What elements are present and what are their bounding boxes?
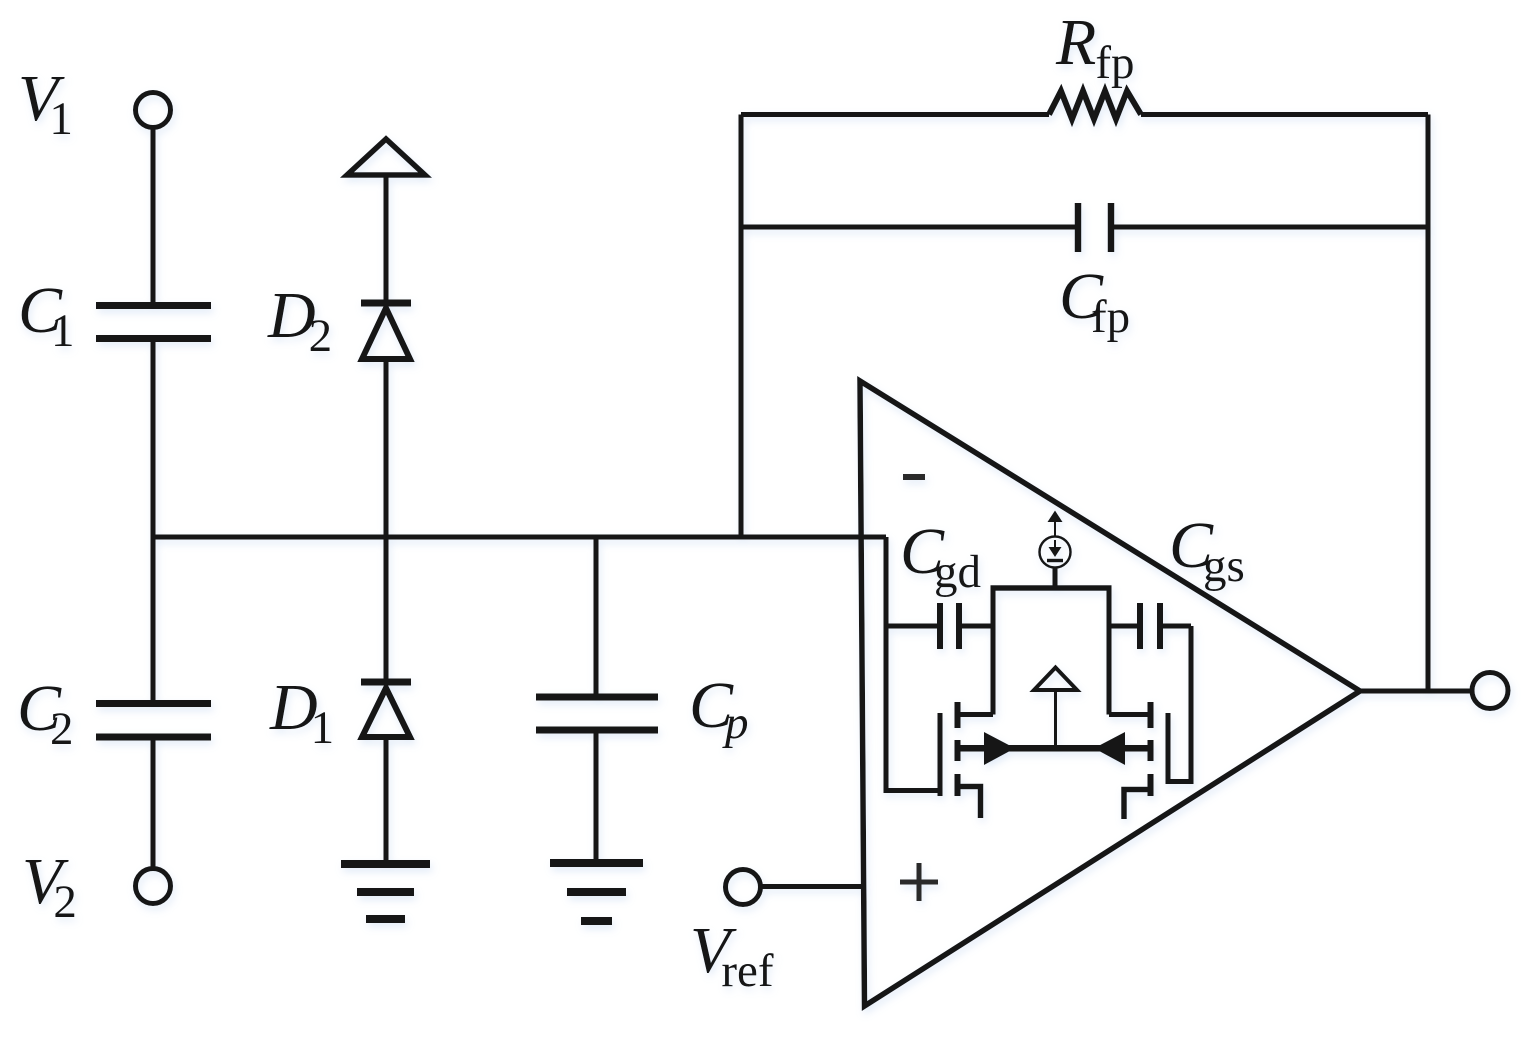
ground <box>550 863 643 921</box>
wire <box>759 884 861 889</box>
plus input sign <box>900 863 938 901</box>
wire <box>151 339 156 538</box>
transistor M2 <box>1109 702 1168 819</box>
wire <box>151 737 156 869</box>
wire <box>151 127 156 303</box>
diode D2 <box>361 303 411 359</box>
svg-text:V1: V1 <box>18 62 73 145</box>
capacitor Cfp <box>1078 203 1111 252</box>
ground <box>341 864 430 919</box>
op-amp U1 <box>860 381 1360 1006</box>
transistor M1 <box>940 702 993 818</box>
current source <box>1040 511 1071 589</box>
wire <box>991 588 996 715</box>
bulk arrow <box>1034 668 1077 749</box>
svg-text:D2: D2 <box>267 279 332 362</box>
svg-text:C2: C2 <box>17 672 74 755</box>
wire <box>384 737 389 861</box>
svg-text:Cp: Cp <box>689 669 749 749</box>
wire node bus <box>153 535 886 540</box>
wire <box>151 537 156 701</box>
svg-text:V2: V2 <box>22 845 77 928</box>
wire <box>1426 115 1431 692</box>
wire tail <box>958 732 1151 765</box>
wire <box>1114 225 1428 230</box>
wire <box>1107 588 1112 715</box>
capacitor C2 <box>96 704 211 738</box>
wire <box>384 359 389 679</box>
svg-text:Cgd: Cgd <box>900 515 981 598</box>
wire <box>1141 112 1428 117</box>
capacitor Cgd <box>886 603 993 649</box>
svg-text:Cgs: Cgs <box>1169 509 1245 592</box>
terminal Vref <box>726 870 761 905</box>
svg-text:Vref: Vref <box>690 914 774 997</box>
wire <box>741 225 1075 230</box>
wire <box>1168 626 1191 782</box>
capacitor Cgs <box>1109 603 1191 649</box>
svg-text:D1: D1 <box>269 671 334 754</box>
wire <box>594 730 599 860</box>
diode D1 <box>361 682 411 737</box>
svg-text:Rfp: Rfp <box>1055 6 1134 89</box>
wire <box>1360 689 1473 694</box>
capacitor C1 <box>96 306 211 339</box>
svg-text:Cfp: Cfp <box>1059 260 1130 343</box>
terminal output <box>1472 673 1508 709</box>
capacitor Cp <box>536 697 658 730</box>
wire top bar <box>991 585 1112 591</box>
terminal V2 <box>136 869 171 904</box>
resistor Rfp <box>1049 91 1141 119</box>
svg-text:C1: C1 <box>18 274 75 357</box>
supply arrow <box>347 139 425 175</box>
wire <box>384 175 389 300</box>
minus input sign <box>903 474 925 480</box>
wire <box>886 537 940 791</box>
wire <box>594 537 599 694</box>
terminal V1 <box>136 93 171 128</box>
wire <box>739 115 744 538</box>
wire <box>741 112 1049 117</box>
